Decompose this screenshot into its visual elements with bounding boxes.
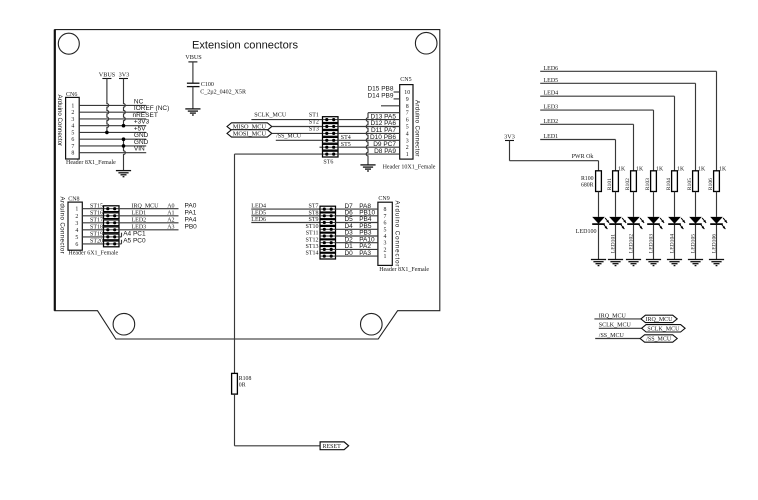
svg-text:4: 4 bbox=[384, 234, 387, 240]
svg-text:7: 7 bbox=[406, 111, 409, 117]
svg-text:C_2µ2_0402_X5R: C_2µ2_0402_X5R bbox=[200, 89, 246, 95]
svg-text:ST8: ST8 bbox=[308, 210, 318, 216]
svg-text:ST9: ST9 bbox=[308, 217, 318, 223]
svg-text:LED3: LED3 bbox=[544, 105, 559, 111]
svg-text:ST18: ST18 bbox=[90, 224, 103, 230]
svg-text:CN8: CN8 bbox=[68, 197, 79, 203]
svg-text:5: 5 bbox=[71, 130, 74, 136]
svg-text:Arduino Connector: Arduino Connector bbox=[56, 95, 63, 147]
svg-text:SCLK_MCU: SCLK_MCU bbox=[647, 326, 680, 332]
svg-text:5: 5 bbox=[384, 227, 387, 233]
svg-text:Header 8X1_Female: Header 8X1_Female bbox=[379, 267, 429, 273]
svg-text:PA1: PA1 bbox=[185, 209, 197, 216]
svg-text:ST11: ST11 bbox=[306, 231, 319, 237]
svg-text:RESET: RESET bbox=[323, 444, 342, 450]
svg-text:3: 3 bbox=[384, 241, 387, 247]
svg-text:1: 1 bbox=[406, 152, 409, 158]
svg-text:LED4: LED4 bbox=[251, 204, 266, 210]
svg-text:Arduino Connector: Arduino Connector bbox=[393, 201, 400, 268]
svg-text:PA0: PA0 bbox=[185, 202, 197, 209]
svg-text:D14 PB9: D14 PB9 bbox=[367, 93, 393, 100]
svg-text:ST19: ST19 bbox=[90, 232, 103, 238]
svg-text:C100: C100 bbox=[201, 82, 214, 88]
svg-text:1: 1 bbox=[384, 254, 387, 260]
svg-text:ST13: ST13 bbox=[305, 244, 318, 250]
svg-text:LED6: LED6 bbox=[544, 66, 559, 72]
svg-text:/SS_MCU: /SS_MCU bbox=[646, 337, 672, 343]
svg-text:1K: 1K bbox=[698, 166, 706, 172]
svg-text:VBUS: VBUS bbox=[185, 54, 202, 61]
svg-text:2: 2 bbox=[75, 214, 78, 220]
svg-text:5: 5 bbox=[75, 235, 78, 241]
svg-text:LED5: LED5 bbox=[544, 78, 559, 84]
svg-text:LED4: LED4 bbox=[544, 91, 559, 97]
svg-text:0R: 0R bbox=[239, 383, 246, 389]
svg-text:ST14: ST14 bbox=[305, 251, 318, 257]
svg-text:A3: A3 bbox=[167, 225, 174, 231]
svg-text:CN5: CN5 bbox=[400, 77, 411, 83]
svg-text:R104: R104 bbox=[666, 178, 672, 190]
svg-text:1K: 1K bbox=[656, 166, 664, 172]
svg-text:A0: A0 bbox=[167, 203, 174, 209]
svg-text:ST20: ST20 bbox=[90, 239, 103, 245]
svg-text:ST16: ST16 bbox=[90, 210, 103, 216]
svg-text:LED2: LED2 bbox=[132, 218, 147, 224]
svg-text:8: 8 bbox=[384, 207, 387, 213]
svg-text:3V3: 3V3 bbox=[504, 134, 515, 141]
svg-text:/SS_MCU: /SS_MCU bbox=[599, 333, 625, 339]
svg-text:Header 8X1_Female: Header 8X1_Female bbox=[66, 160, 116, 166]
svg-text:LED5: LED5 bbox=[251, 210, 266, 216]
svg-text:A2: A2 bbox=[167, 218, 174, 224]
svg-text:4: 4 bbox=[71, 124, 74, 130]
svg-text:LED6: LED6 bbox=[251, 217, 266, 223]
svg-text:3: 3 bbox=[71, 117, 74, 123]
svg-text:PA3: PA3 bbox=[359, 250, 371, 257]
svg-text:MOSI_MCU: MOSI_MCU bbox=[233, 131, 267, 138]
svg-text:1K: 1K bbox=[618, 166, 626, 172]
svg-text:R101: R101 bbox=[607, 178, 613, 190]
svg-text:1K: 1K bbox=[677, 166, 685, 172]
svg-text:3: 3 bbox=[406, 138, 409, 144]
svg-text:ST15: ST15 bbox=[90, 203, 103, 209]
svg-text:LED100: LED100 bbox=[576, 229, 597, 235]
svg-text:7: 7 bbox=[71, 144, 74, 150]
svg-text:6: 6 bbox=[406, 118, 409, 124]
svg-text:LED2: LED2 bbox=[544, 119, 559, 125]
svg-text:4: 4 bbox=[75, 228, 78, 234]
svg-text:Extension connectors: Extension connectors bbox=[192, 39, 299, 51]
svg-text:6: 6 bbox=[384, 221, 387, 227]
svg-text:ST6: ST6 bbox=[323, 160, 333, 166]
svg-text:D8 PA9: D8 PA9 bbox=[374, 148, 396, 155]
svg-text:3: 3 bbox=[75, 221, 78, 227]
svg-text:SCLK_MCU: SCLK_MCU bbox=[254, 113, 287, 119]
svg-text:9: 9 bbox=[406, 97, 409, 103]
svg-text:IRQ_MCU: IRQ_MCU bbox=[132, 203, 160, 209]
svg-text:R102: R102 bbox=[625, 178, 631, 190]
svg-text:8: 8 bbox=[406, 104, 409, 110]
svg-text:6: 6 bbox=[75, 242, 78, 248]
svg-text:SCLK_MCU: SCLK_MCU bbox=[599, 323, 632, 329]
svg-text:A5 PC0: A5 PC0 bbox=[123, 237, 146, 244]
svg-text:R105: R105 bbox=[687, 178, 693, 190]
svg-text:PB0: PB0 bbox=[185, 224, 198, 231]
svg-text:1: 1 bbox=[75, 207, 78, 213]
svg-text:4: 4 bbox=[406, 131, 409, 137]
svg-text:ST12: ST12 bbox=[305, 237, 318, 243]
svg-text:PA4: PA4 bbox=[185, 217, 197, 224]
svg-text:ST2: ST2 bbox=[309, 120, 319, 126]
svg-text:/SS_MCU: /SS_MCU bbox=[276, 133, 302, 139]
svg-text:ST10: ST10 bbox=[305, 224, 318, 230]
svg-text:680R: 680R bbox=[581, 182, 594, 188]
svg-text:VIN: VIN bbox=[134, 146, 145, 153]
svg-text:Header 6X1_Female: Header 6X1_Female bbox=[68, 251, 118, 257]
svg-text:2: 2 bbox=[71, 110, 74, 116]
svg-text:PWR Ok: PWR Ok bbox=[572, 154, 594, 160]
svg-text:IRQ_MCU: IRQ_MCU bbox=[645, 317, 673, 323]
svg-text:5: 5 bbox=[406, 125, 409, 131]
svg-text:ST7: ST7 bbox=[308, 204, 318, 210]
svg-text:1: 1 bbox=[71, 103, 74, 109]
svg-text:R100: R100 bbox=[581, 176, 594, 182]
svg-text:6: 6 bbox=[71, 137, 74, 143]
svg-text:ST3: ST3 bbox=[309, 126, 319, 132]
svg-text:1K: 1K bbox=[636, 166, 644, 172]
svg-text:A4 PC1: A4 PC1 bbox=[123, 230, 146, 237]
svg-text:D0: D0 bbox=[344, 250, 353, 257]
svg-text:1K: 1K bbox=[719, 166, 727, 172]
svg-text:Header 10X1_Female: Header 10X1_Female bbox=[383, 165, 436, 171]
svg-text:A1: A1 bbox=[167, 210, 174, 216]
svg-text:3V3: 3V3 bbox=[119, 72, 130, 79]
svg-text:LED1: LED1 bbox=[544, 134, 559, 140]
svg-text:R106: R106 bbox=[708, 178, 714, 190]
svg-text:R108: R108 bbox=[239, 376, 252, 382]
svg-text:LED1: LED1 bbox=[132, 210, 147, 216]
svg-text:CN6: CN6 bbox=[66, 92, 77, 98]
svg-text:CN9: CN9 bbox=[378, 196, 389, 202]
svg-text:2: 2 bbox=[384, 247, 387, 253]
svg-text:ST17: ST17 bbox=[90, 217, 103, 223]
svg-text:IRQ_MCU: IRQ_MCU bbox=[599, 313, 627, 319]
svg-text:2: 2 bbox=[406, 145, 409, 151]
svg-text:8: 8 bbox=[71, 151, 74, 157]
svg-text:R103: R103 bbox=[645, 178, 651, 190]
svg-text:ST1: ST1 bbox=[309, 113, 319, 119]
svg-text:7: 7 bbox=[384, 214, 387, 220]
svg-text:10: 10 bbox=[404, 90, 410, 96]
svg-text:VBUS: VBUS bbox=[99, 72, 116, 79]
svg-text:Arduino Connector: Arduino Connector bbox=[413, 100, 420, 157]
svg-text:Arduino Connector: Arduino Connector bbox=[58, 197, 65, 255]
